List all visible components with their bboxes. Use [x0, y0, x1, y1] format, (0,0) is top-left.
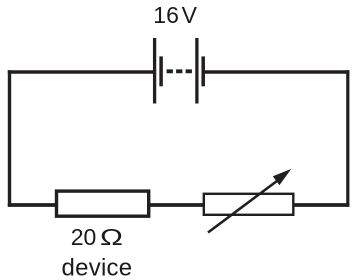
battery plate long 1: [153, 38, 156, 104]
svg-text:Ω: Ω: [100, 224, 123, 250]
svg-text:device: device: [62, 254, 133, 280]
variable resistor R2 box: [204, 194, 293, 215]
battery B1 (two cells with dashed continuation): [155, 38, 204, 104]
wire top-right segment: [204, 70, 350, 74]
wire right vertical: [346, 70, 349, 207]
wire bottom-middle segment: [149, 203, 204, 207]
battery plate long 2: [195, 38, 198, 104]
battery plate short 1: [159, 56, 163, 86]
wire bottom-right segment: [293, 203, 349, 207]
svg-text:V: V: [182, 2, 198, 28]
variable resistor arrowhead: [273, 169, 292, 185]
svg-text:20: 20: [71, 224, 97, 250]
battery plate short 2: [201, 56, 205, 86]
resistor R1 20 ohm box: [57, 191, 149, 216]
battery dashed link: [167, 69, 193, 73]
wire left vertical: [8, 70, 11, 207]
wire top-left segment: [8, 70, 154, 74]
variable resistor arrow shaft: [208, 177, 283, 233]
svg-text:16: 16: [153, 2, 179, 28]
wire bottom-left segment: [8, 203, 56, 207]
